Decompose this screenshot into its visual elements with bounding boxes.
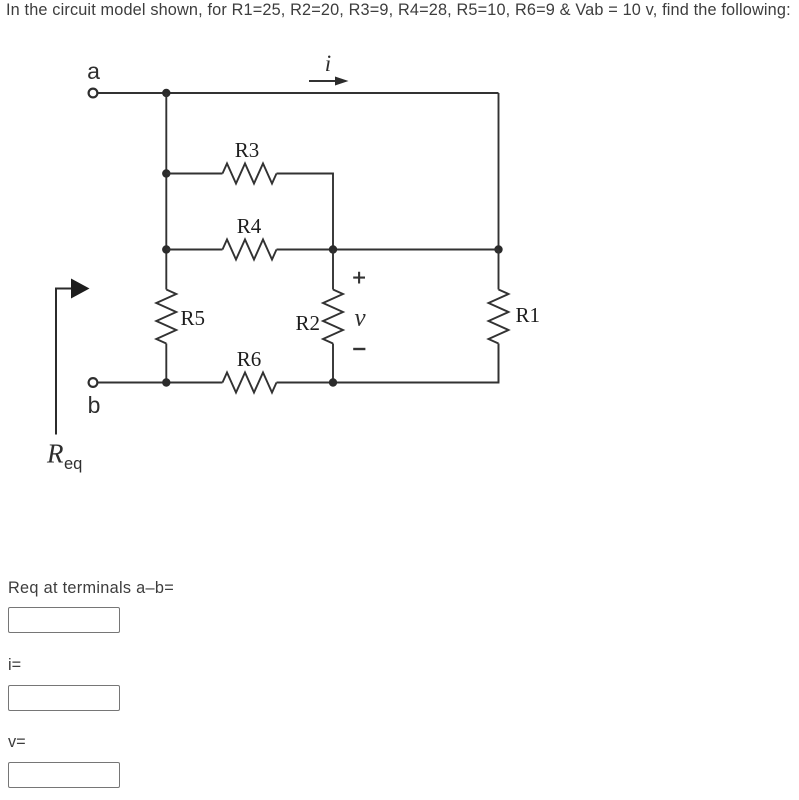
resistor R6 [223,373,277,393]
question label Req [8,579,174,598]
problem statement [6,1,791,20]
circuit schematic [0,0,799,540]
wire top (a to top-right corner) [98,92,499,94]
wire R1 bottom lead [498,344,500,383]
resistor R5 [156,290,176,344]
wire R3 row right lead and corner down [277,174,334,250]
label v [354,305,366,332]
wire bottom left (b to R6) [98,382,223,384]
wire R4 row left lead [166,249,222,251]
wire R2 top lead [332,250,334,290]
wire left vertical (top node down to R5) [165,93,167,290]
node junction bottom left [162,378,170,386]
input box Req [8,607,120,633]
terminal a [89,89,98,98]
wire R3 row left lead [166,173,222,175]
wire R4 row right (node to R1 line) [277,249,499,251]
wire R2 bottom lead [332,344,334,383]
terminal b [89,378,98,387]
label R3 [235,138,260,162]
current arrow i [309,77,349,86]
label R6 [237,347,262,371]
wire R5 bottom lead [165,344,167,383]
svg-text:b: b [88,392,101,418]
svg-text:R3: R3 [235,138,260,162]
label plus sign [353,272,365,284]
label R4 [237,214,262,238]
svg-text:a: a [87,58,100,84]
resistor R4 [223,240,277,260]
node junction R4 row left [162,245,170,253]
wire bottom right (R6 to bottom-right corner) [277,344,499,383]
svg-text:R6: R6 [237,347,262,371]
resistor R3 [223,164,277,184]
resistor R1 [489,290,509,344]
Req measurement arrow [56,279,90,435]
label R2 [295,311,320,335]
svg-text:eq: eq [64,455,82,473]
label a [87,58,100,84]
question label v [8,733,26,752]
input box v [8,762,120,788]
node junction top at left vertical [162,89,170,97]
wire right vertical (top corner to R1 node) [498,93,500,250]
svg-text:R1: R1 [516,303,541,327]
svg-text:R4: R4 [237,214,262,238]
label Req [46,439,82,474]
question label i [8,656,21,675]
svg-text:v: v [354,305,366,332]
wire R1 top lead [498,250,500,290]
node junction R4/R2 [329,245,337,253]
label R1 [516,303,541,327]
node junction R3 row left [162,169,170,177]
node junction at R1 top [494,245,502,253]
input box i [8,685,120,711]
label minus sign [353,348,365,350]
svg-text:R: R [46,439,64,469]
svg-text:R5: R5 [181,306,206,330]
label R5 [181,306,206,330]
current label i [325,51,331,76]
node junction bottom R2 [329,378,337,386]
resistor R2 [323,290,343,344]
label b [88,392,101,418]
svg-text:R2: R2 [295,311,320,335]
svg-text:i: i [325,51,331,76]
